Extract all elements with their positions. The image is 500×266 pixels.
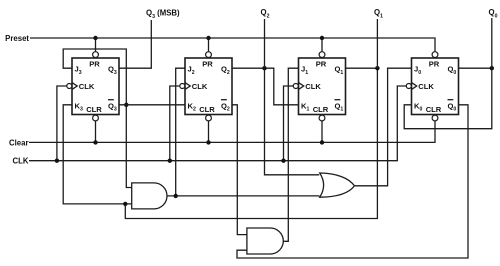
junction Q1 branch (375, 66, 379, 70)
junction on CLK at U2 (168, 159, 172, 163)
flip-flop U1 (JK) body (299, 58, 346, 115)
svg-text:CLR: CLR (313, 105, 329, 114)
wire G1 output branch up to J2 (176, 68, 185, 196)
and-gate G1 (132, 183, 167, 209)
junction Q2 branch (262, 66, 266, 70)
svg-text:CLK: CLK (79, 82, 95, 91)
junction Qbar3 branch (124, 103, 128, 107)
wire Q3 output to top label (119, 20, 151, 68)
wire U1 clock feed (284, 86, 294, 161)
flip-flop U0 (JK) body (412, 58, 459, 115)
junction Q0 branch (490, 66, 494, 70)
junction K3 net at G1 bottom input (123, 202, 127, 206)
svg-text:PR: PR (429, 60, 440, 69)
junction on Clear at U3 (93, 140, 97, 144)
wire Preset rail (ends dropping into U0 PR) (30, 38, 435, 52)
svg-text:CLR: CLR (199, 105, 215, 114)
wire Qbar0 down and around to AND G2 bottom input (237, 105, 468, 258)
wire G1 output to OR G3 bottom input (167, 195, 320, 197)
flip-flop U2 (JK) body (185, 58, 232, 115)
svg-text:CLK: CLK (418, 82, 434, 91)
wire U3 clock feed (57, 86, 67, 161)
preset bubble of U3 (93, 52, 99, 58)
or-gate G3 (320, 173, 355, 197)
clock bubble of U2 (180, 84, 185, 89)
svg-text:CLR: CLR (86, 105, 102, 114)
svg-text:CLR: CLR (426, 105, 442, 114)
junction on Preset at U2 (206, 36, 210, 40)
clear bubble of U3 (93, 115, 99, 121)
junction on CLK at U1 (281, 159, 285, 163)
junction on CLK at U3 (55, 159, 59, 163)
junction G1 output (174, 194, 178, 198)
svg-text:CLK: CLK (192, 82, 208, 91)
wire Q1 output (346, 67, 378, 69)
wire Qbar2 down to AND G2 top input (232, 105, 247, 235)
wire G2 output up to J1 (283, 68, 298, 241)
svg-text:PR: PR (202, 60, 213, 69)
wire U2 clear stub (208, 121, 210, 142)
wire U3 preset stub (95, 38, 97, 52)
wire Q0 wrap to K0 (404, 68, 492, 129)
wire Q0 output (459, 67, 492, 69)
junction on Preset at U1 (320, 36, 324, 40)
svg-text:Clear: Clear (9, 138, 29, 147)
clear bubble of U1 (319, 115, 325, 121)
wire Qbar3 output to K2 (119, 104, 185, 106)
and-gate G2 (247, 228, 283, 254)
svg-text:PR: PR (89, 60, 100, 69)
preset bubble of U0 (432, 52, 438, 58)
wire Q2 output jog to K1 (232, 68, 299, 105)
clear bubble of U2 (206, 115, 212, 121)
clock bubble of U1 (293, 84, 298, 89)
clock bubble of U3 (67, 84, 72, 89)
wire K3 feed down and right to AND G1 bottom input (63, 105, 132, 204)
clear bubble of U0 (432, 115, 438, 121)
svg-text:CLK: CLK (305, 82, 321, 91)
wire OR G3 output up to J0 (355, 68, 412, 186)
wire U2 clock feed (170, 86, 180, 161)
wire Qbar3 wrap to J3 and down to AND G1 top input (63, 49, 132, 188)
wire U1 preset stub (321, 38, 323, 52)
junction on Clear at U1 (320, 140, 324, 144)
wire U2 preset stub (208, 38, 210, 52)
junction on Preset at U3 (93, 36, 97, 40)
wire Clear rail (ends rising into U0 CLR) (29, 121, 435, 142)
preset bubble of U1 (319, 52, 325, 58)
clock bubble of U0 (406, 84, 411, 89)
junction on Clear at U2 (206, 140, 210, 144)
wire Q1 up to top label (376, 19, 378, 68)
wire Q2 down to OR G3 top input (265, 68, 320, 175)
wire Q2 up to top label (264, 19, 266, 68)
wire CLK rail (ends rising into U0 clock bubble) (29, 86, 406, 161)
svg-text:CLK: CLK (12, 157, 28, 166)
svg-text:PR: PR (316, 60, 327, 69)
wire U1 clear stub (321, 121, 323, 142)
wire K3 net long run to Q1 (125, 68, 377, 218)
svg-text:Preset: Preset (5, 34, 29, 43)
wire Q0 up to top label (491, 18, 493, 68)
flip-flop U3 (JK) body (72, 58, 119, 115)
preset bubble of U2 (206, 52, 212, 58)
wire U3 clear stub (95, 121, 97, 142)
